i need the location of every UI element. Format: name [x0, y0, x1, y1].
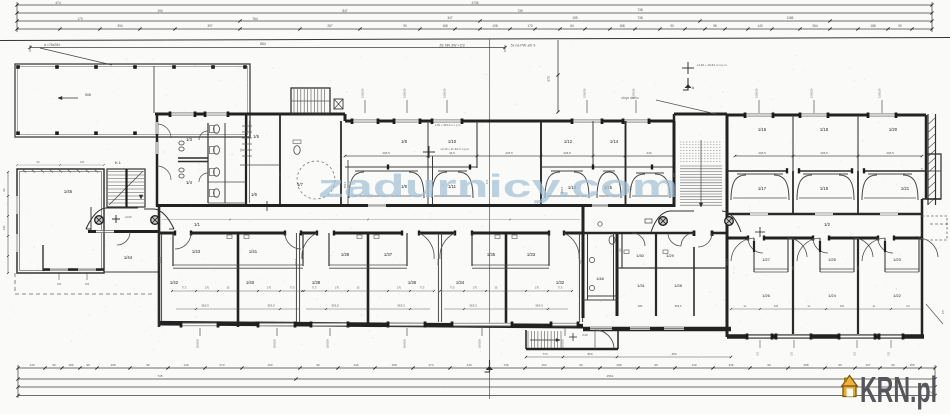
room 1/7 wall east	[340, 121, 342, 207]
svg-text:180: 180	[68, 363, 73, 367]
svg-text:90: 90	[654, 363, 658, 367]
svg-text:90: 90	[239, 148, 243, 151]
bath walls module 2	[328, 233, 330, 266]
lobby columns	[659, 217, 668, 226]
svg-text:363,5: 363,5	[535, 304, 543, 308]
svg-text:KRN.pl: KRN.pl	[860, 369, 937, 410]
svg-text:1/29: 1/29	[666, 253, 675, 258]
svg-text:445,5: 445,5	[758, 151, 766, 155]
right edge dashed	[930, 223, 950, 225]
svg-text:506: 506	[85, 93, 91, 97]
svg-text:274: 274	[428, 363, 433, 367]
svg-text:884: 884	[260, 42, 266, 46]
right wing dimension line	[735, 155, 922, 157]
toilet room door arcs	[157, 124, 171, 138]
svg-text:90: 90	[891, 363, 895, 367]
corridor door jambs	[174, 231, 176, 236]
svg-text:459: 459	[671, 352, 676, 356]
ground line full width	[0, 38, 950, 41]
svg-text:168: 168	[442, 24, 448, 28]
svg-text:346: 346	[728, 363, 733, 367]
bath fixtures module 2	[357, 235, 362, 239]
svg-text:3x5: 3x5	[774, 304, 779, 308]
mid section bottom wall	[583, 327, 731, 331]
svg-text:a 50 + 45/14 m n.p.m.: a 50 + 45/14 m n.p.m.	[435, 123, 461, 127]
north wall right wing	[727, 114, 926, 117]
svg-text:90: 90	[838, 363, 842, 367]
svg-text:1/40: 1/40	[246, 280, 255, 285]
svg-text:170: 170	[205, 287, 210, 290]
svg-text:363,5: 363,5	[469, 304, 477, 308]
room 1/45 top wall hatch	[22, 169, 26, 173]
svg-text:573: 573	[547, 76, 551, 82]
room 1/5 hatch	[242, 125, 252, 127]
svg-text:1/30: 1/30	[636, 253, 645, 258]
svg-text:1/7: 1/7	[297, 182, 303, 187]
svg-text:150/220: 150/220	[478, 338, 482, 348]
dimension band top line 3	[17, 20, 932, 22]
svg-text:140: 140	[691, 363, 696, 367]
mid section west wall	[582, 207, 585, 318]
toilet block window left	[156, 122, 158, 134]
svg-text:150/220: 150/220	[326, 338, 330, 348]
toilet cell shelves	[208, 136, 246, 138]
windows north wall	[352, 120, 378, 122]
svg-text:90: 90	[898, 24, 902, 28]
svg-text:108: 108	[492, 24, 498, 28]
svg-text:1/12: 1/12	[564, 139, 573, 144]
right wing row2 walls	[792, 171, 794, 214]
dimension band top line 1	[17, 4, 932, 6]
lobby canopy arcs	[651, 211, 694, 232]
svg-text:160: 160	[579, 259, 583, 264]
svg-text:150/220: 150/220	[755, 88, 759, 98]
svg-text:449: 449	[353, 363, 358, 367]
svg-text:445,5: 445,5	[505, 151, 513, 155]
window markers above north wall	[364, 100, 366, 113]
mid section inner divider	[617, 267, 727, 269]
wing bath 1/27	[753, 238, 755, 272]
svg-text:150/220: 150/220	[273, 338, 277, 348]
svg-text:1/34: 1/34	[456, 280, 465, 285]
svg-text:1/24: 1/24	[828, 293, 837, 298]
room 1/7 wc	[294, 146, 300, 155]
svg-text:1/26: 1/26	[762, 293, 771, 298]
east wall right wing lower	[921, 199, 924, 336]
svg-text:1/36: 1/36	[408, 280, 417, 285]
svg-text:1/21: 1/21	[901, 186, 910, 191]
dimension band left end	[16, 2, 18, 32]
level cross vestibule2	[755, 231, 765, 233]
svg-text:155: 155	[572, 16, 578, 20]
svg-text:738: 738	[637, 16, 643, 20]
svg-text:168: 168	[391, 363, 396, 367]
svg-text:35: 35	[357, 287, 360, 290]
svg-text:77,5: 77,5	[450, 287, 455, 290]
svg-text:170: 170	[527, 24, 533, 28]
room 1/44 outline	[103, 207, 105, 272]
svg-text:ZE NR.3W +2/3: ZE NR.3W +2/3	[439, 44, 464, 48]
svg-text:1/20: 1/20	[889, 127, 898, 132]
dimension line through upper rooms	[345, 155, 674, 157]
vertical dimension line x558	[557, 40, 559, 112]
svg-text:150/220: 150/220	[403, 88, 407, 98]
dimension band top line 2	[17, 12, 932, 14]
svg-text:1/23: 1/23	[893, 257, 902, 262]
svg-text:170: 170	[397, 287, 402, 290]
svg-text:1/1: 1/1	[194, 222, 200, 227]
svg-text:1/14: 1/14	[610, 139, 619, 144]
svg-text:1186: 1186	[787, 16, 794, 20]
door arcs module 2	[302, 233, 317, 259]
svg-text:397: 397	[207, 24, 213, 28]
section flag A top	[683, 78, 688, 90]
bottom wall main slab	[160, 323, 583, 326]
svg-text:140: 140	[80, 160, 85, 164]
svg-text:150: 150	[792, 351, 794, 356]
door arcs module 3	[440, 233, 455, 259]
svg-text:35: 35	[227, 287, 230, 290]
bottom dimension end verticals	[17, 365, 19, 398]
vestibule dimension line	[526, 356, 731, 358]
svg-text:90: 90	[767, 363, 771, 367]
mid section wall x694	[693, 247, 695, 316]
svg-text:1/10: 1/10	[448, 139, 457, 144]
svg-text:77,5: 77,5	[312, 287, 317, 290]
svg-text:445,5: 445,5	[563, 151, 571, 155]
svg-text:1/4: 1/4	[186, 180, 192, 185]
svg-text:738: 738	[637, 8, 643, 12]
svg-text:1/44: 1/44	[124, 255, 133, 260]
svg-text:165: 165	[909, 363, 914, 367]
bump room divider	[926, 170, 941, 172]
svg-text:150/220: 150/220	[583, 88, 587, 98]
dimension ticks row4	[58, 27, 61, 30]
staircase K1 center bar	[125, 169, 127, 207]
svg-text:150: 150	[758, 351, 760, 356]
svg-text:746: 746	[503, 363, 508, 367]
svg-text:188: 188	[619, 24, 625, 28]
alcove room west	[636, 172, 664, 174]
sink fixtures	[179, 141, 184, 145]
mid fixtures	[624, 250, 629, 254]
svg-text:90: 90	[403, 24, 407, 28]
level cross marker middle	[682, 67, 694, 69]
wing corridor door jambs and arcs	[747, 236, 749, 241]
svg-text:180: 180	[638, 304, 643, 308]
svg-text:140: 140	[2, 225, 6, 230]
bottom modules boundary walls	[157, 233, 159, 322]
terrace columns bottom	[16, 131, 20, 135]
svg-text:739: 739	[517, 9, 523, 13]
dimension ticks row3	[238, 19, 241, 22]
svg-text:3,0: 3,0	[906, 304, 910, 308]
svg-text:3x5: 3x5	[840, 304, 845, 308]
svg-text:1/28: 1/28	[674, 283, 683, 288]
svg-text:363,5: 363,5	[725, 258, 729, 265]
svg-text:150: 150	[855, 351, 857, 356]
svg-text:150: 150	[889, 351, 891, 356]
terrace arrow 506	[58, 97, 78, 99]
svg-text:363,5: 363,5	[436, 258, 440, 265]
left vertical dimension line	[7, 172, 9, 273]
staircase K1	[107, 169, 145, 207]
svg-text:1/46: 1/46	[596, 276, 605, 281]
svg-text:298: 298	[616, 363, 621, 367]
svg-text:264: 264	[812, 24, 818, 28]
svg-text:90: 90	[316, 363, 320, 367]
svg-text:363,5: 363,5	[675, 304, 682, 308]
window markers below bottom wall	[199, 328, 201, 336]
corridor south wall with door gaps	[160, 232, 175, 235]
svg-text:77,5: 77,5	[182, 287, 187, 290]
svg-text:a =78x284: a =78x284	[44, 43, 60, 47]
svg-text:1/37: 1/37	[384, 252, 393, 257]
staircase top block	[291, 88, 330, 114]
dimension band right end	[931, 2, 933, 32]
right mid bump	[922, 216, 947, 240]
svg-text:164: 164	[541, 363, 546, 367]
vestibule stair treads	[527, 331, 529, 348]
chimney crossed box	[334, 99, 343, 109]
west wall toilet block	[156, 114, 159, 207]
alcove room 1/19	[803, 173, 848, 175]
svg-text:90: 90	[37, 160, 40, 164]
svg-text:363,5: 363,5	[294, 258, 298, 265]
svg-text:280: 280	[672, 172, 676, 177]
entry porch canopy	[86, 208, 138, 229]
svg-text:188: 188	[870, 24, 876, 28]
svg-text:170: 170	[485, 179, 489, 184]
vestibule plus mark	[569, 336, 577, 338]
svg-text:170: 170	[473, 287, 478, 290]
alcove room 1/17	[737, 173, 783, 175]
terrace columns top	[16, 65, 20, 69]
svg-text:1/16: 1/16	[758, 127, 767, 132]
svg-text:1/18: 1/18	[820, 127, 829, 132]
svg-text:445,5: 445,5	[820, 151, 828, 155]
svg-text:150/220: 150/220	[878, 88, 882, 98]
bath walls module 3	[471, 233, 473, 266]
right wing row divider	[727, 170, 787, 172]
room 1/46 inner walls	[587, 233, 589, 300]
svg-text:1/32: 1/32	[556, 280, 565, 285]
svg-text:150/220: 150/220	[196, 338, 200, 348]
corridor guide line	[162, 219, 580, 221]
module center wall 1/38/1/36	[367, 233, 370, 327]
svg-text:445,5: 445,5	[886, 151, 894, 155]
bath fixtures module 1	[227, 235, 232, 239]
svg-text:140: 140	[757, 24, 763, 28]
alcove room 1/15	[603, 170, 615, 172]
right wing bottom wall	[727, 334, 924, 339]
svg-text:347: 347	[447, 16, 453, 20]
east wall hatched band	[927, 114, 929, 205]
svg-text:800: 800	[587, 352, 592, 356]
svg-text:363,5: 363,5	[397, 304, 405, 308]
svg-text:1/25: 1/25	[828, 257, 837, 262]
svg-text:167: 167	[865, 363, 870, 367]
north wall stairwell part	[674, 113, 727, 116]
svg-text:1/8: 1/8	[401, 139, 407, 144]
svg-text:185: 185	[278, 172, 282, 177]
svg-text:394: 394	[117, 24, 123, 28]
toilet block east wall	[245, 114, 247, 207]
svg-text:363,5: 363,5	[560, 186, 564, 193]
terrace outline	[15, 64, 250, 137]
east wall diagonal leader	[926, 304, 943, 324]
svg-text:140: 140	[29, 363, 34, 367]
svg-text:90: 90	[146, 363, 150, 367]
right wing corridor south wall	[727, 237, 748, 240]
svg-text:35: 35	[495, 287, 498, 290]
room 1/45 windows	[16, 196, 18, 214]
svg-text:98: 98	[713, 24, 717, 28]
mid section door arc	[698, 233, 712, 247]
svg-text:1/3: 1/3	[186, 137, 192, 142]
bath fixtures module 3	[495, 235, 500, 239]
svg-text:363,5: 363,5	[343, 181, 347, 188]
svg-text:5x na PW ±0/-3: 5x na PW ±0/-3	[511, 44, 536, 48]
vestibule door arc	[595, 330, 614, 349]
svg-text:1/39: 1/39	[341, 252, 350, 257]
dashed boundary	[14, 273, 16, 294]
upper rooms vertical walls	[427, 121, 429, 205]
svg-text:1/45: 1/45	[64, 189, 73, 194]
svg-text:1/42: 1/42	[170, 280, 179, 285]
svg-text:K 1: K 1	[115, 161, 121, 165]
terrace divider	[153, 66, 155, 113]
module center wall 1/42/1/40	[237, 233, 240, 327]
vestibule walls	[525, 330, 527, 349]
dim line inner module 3	[440, 290, 572, 292]
toilet fixtures	[214, 125, 220, 133]
divider 1/5 1/6	[240, 164, 280, 166]
svg-text:1/19: 1/19	[820, 186, 829, 191]
svg-text:zadurnicy.com: zadurnicy.com	[318, 168, 678, 204]
svg-text:90: 90	[2, 188, 6, 192]
svg-text:190: 190	[267, 363, 272, 367]
KRN.pl logo house icon	[842, 376, 858, 397]
svg-text:90: 90	[52, 363, 56, 367]
entry block	[90, 207, 92, 232]
svg-text:150: 150	[57, 282, 62, 286]
svg-text:2x: 2x	[808, 304, 811, 308]
bottom wall window jambs	[180, 322, 183, 328]
svg-text:160: 160	[856, 265, 860, 270]
bottom dimension line 4	[18, 395, 935, 397]
svg-text:363,5: 363,5	[331, 304, 339, 308]
roof outline leader	[656, 100, 716, 114]
svg-text:774: 774	[542, 352, 547, 356]
room 1/45 outline	[17, 169, 104, 273]
svg-text:363,5: 363,5	[267, 304, 275, 308]
svg-text:160: 160	[791, 265, 795, 270]
right wing row3 walls	[792, 238, 794, 334]
svg-text:173: 173	[77, 17, 83, 21]
bottom dimension line 3	[18, 386, 935, 388]
svg-text:+0,00: +0,00	[124, 215, 132, 219]
level cross entry	[262, 205, 272, 207]
svg-text:149: 149	[183, 363, 188, 367]
stairwell center line	[700, 140, 702, 207]
svg-text:150: 150	[85, 282, 90, 286]
svg-text:84: 84	[570, 24, 574, 28]
svg-text:90: 90	[579, 363, 583, 367]
svg-text:150/220: 150/220	[443, 88, 447, 98]
svg-text:150/220: 150/220	[361, 88, 365, 98]
stairwell dashed treads	[680, 141, 722, 143]
section line A-A vertical	[489, 39, 491, 399]
svg-text:1/5: 1/5	[253, 134, 259, 139]
svg-text:745: 745	[157, 374, 162, 378]
svg-text:0,00: 0,00	[582, 333, 588, 337]
door arcs module 1	[175, 233, 191, 249]
toilet block inner wall	[207, 123, 209, 203]
mid section walls	[616, 233, 619, 316]
entry plus mark	[112, 218, 120, 220]
svg-text:1/35: 1/35	[487, 252, 496, 257]
svg-text:A: A	[692, 86, 695, 90]
section flag A bottom	[485, 360, 490, 372]
wing bath 1/25	[819, 238, 821, 272]
svg-text:170: 170	[267, 287, 272, 290]
svg-text:+4,10 + 11,34 m n.p.m.: +4,10 + 11,34 m n.p.m.	[440, 147, 470, 151]
svg-text:1/22: 1/22	[893, 293, 902, 298]
svg-text:363,5: 363,5	[201, 304, 209, 308]
svg-text:150/220: 150/220	[403, 338, 407, 348]
svg-text:1/31: 1/31	[637, 283, 646, 288]
right wing row1 walls	[792, 115, 794, 172]
svg-text:1/33: 1/33	[527, 252, 536, 257]
entry south wall	[88, 230, 160, 233]
svg-text:298: 298	[110, 363, 115, 367]
stairwell treads	[680, 165, 722, 167]
stairwell side walls	[673, 121, 676, 207]
bath walls module 1	[172, 233, 174, 266]
north wall west part	[155, 113, 345, 116]
svg-text:77,5: 77,5	[420, 287, 425, 290]
wing window markers below	[759, 340, 761, 348]
svg-text:363,5: 363,5	[158, 256, 162, 263]
level cross marker upper left	[423, 151, 435, 153]
mid bath arcs	[632, 233, 645, 246]
svg-text:267: 267	[327, 24, 333, 28]
mid section fixtures	[589, 257, 594, 262]
alcove room 1/11	[438, 170, 467, 172]
alcove room 1/21	[868, 173, 912, 175]
svg-text:764: 764	[252, 17, 258, 21]
left wing bottom wall	[43, 268, 104, 271]
svg-text:170: 170	[535, 287, 540, 290]
svg-text:474: 474	[55, 1, 61, 5]
north wall middle part	[345, 120, 674, 123]
mid section north wall	[583, 232, 694, 235]
svg-text:170: 170	[920, 167, 924, 172]
corridor north wall	[157, 204, 674, 207]
svg-text:194: 194	[157, 9, 163, 13]
svg-text:obrys dachu: obrys dachu	[621, 96, 639, 100]
svg-text:90: 90	[670, 24, 674, 28]
svg-text:140: 140	[466, 363, 471, 367]
svg-text:2x: 2x	[744, 304, 747, 308]
svg-text:298: 298	[803, 363, 808, 367]
svg-text:77,5: 77,5	[558, 287, 563, 290]
dimension line over terrace	[30, 47, 505, 49]
right wing corridor north wall	[727, 213, 922, 215]
dim line inner module 2	[302, 290, 434, 292]
svg-text:1/41: 1/41	[249, 249, 258, 254]
